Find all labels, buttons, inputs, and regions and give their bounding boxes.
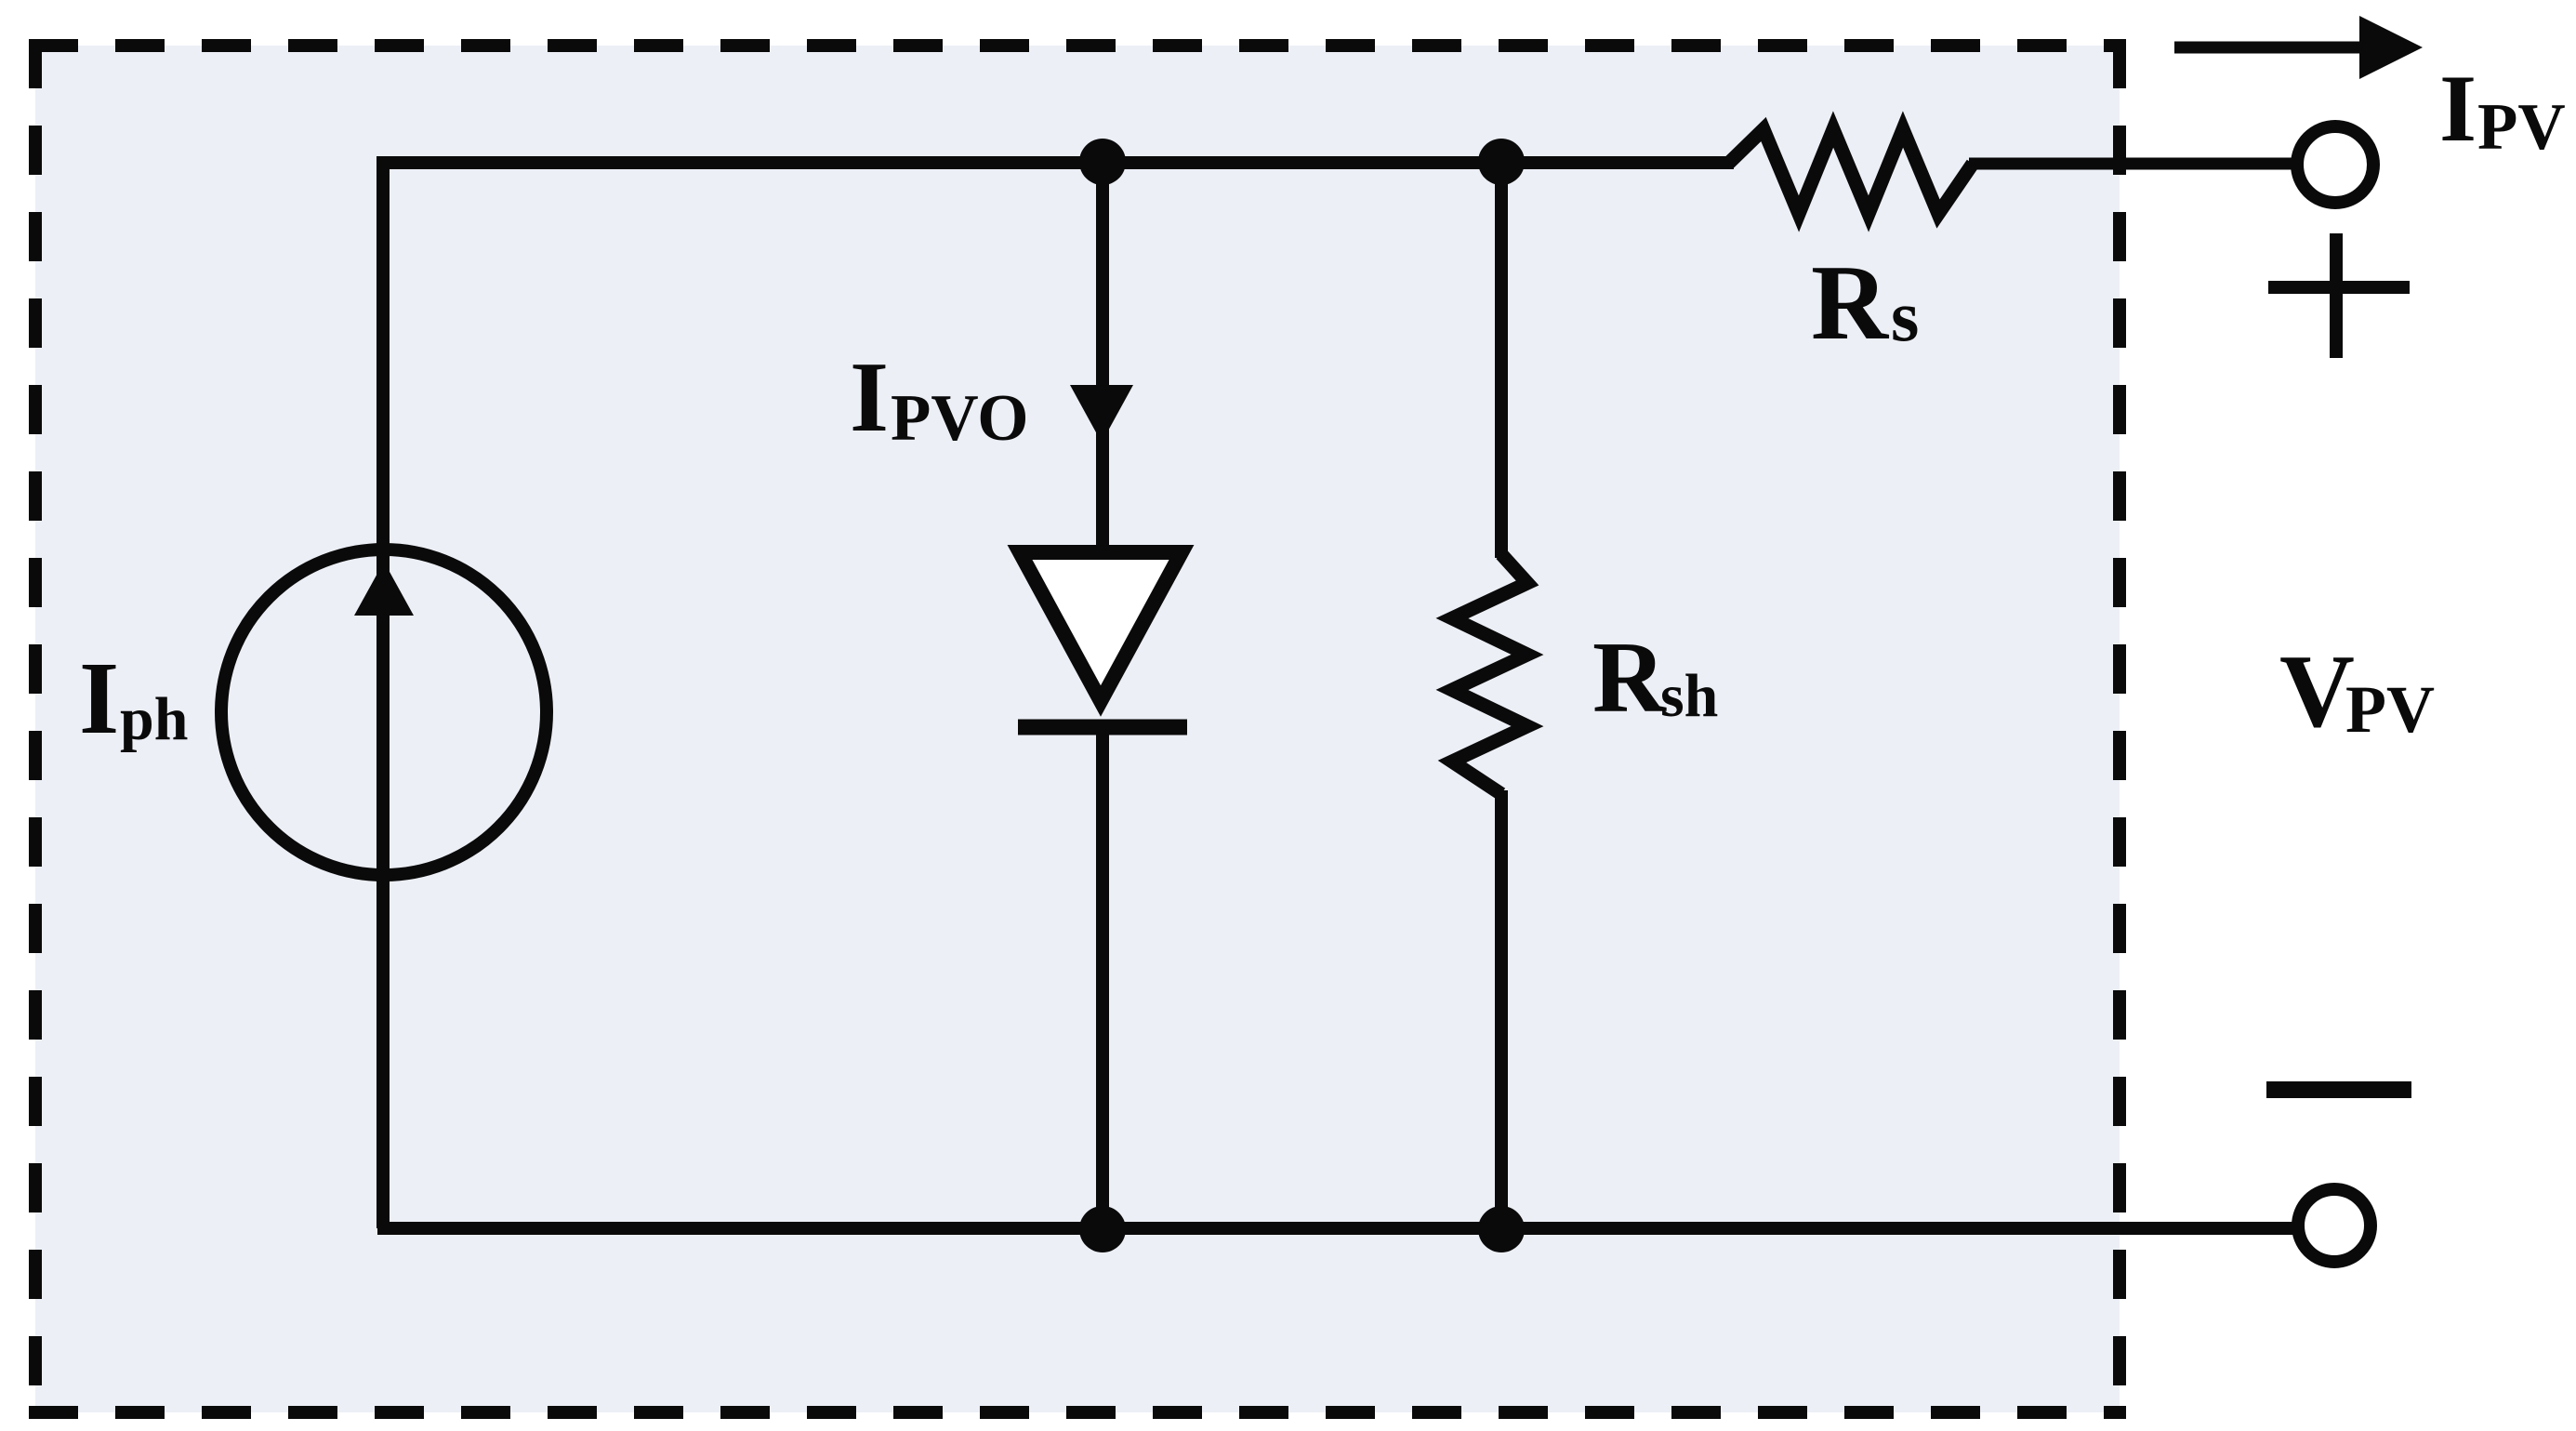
svg-text:R: R (1811, 244, 1890, 362)
node junction dot top diode (1079, 139, 1126, 185)
svg-text:V: V (2279, 634, 2355, 749)
svg-text:s: s (1891, 275, 1919, 356)
wire shunt branch upper (1495, 156, 1508, 558)
wire top rail right (1969, 158, 2294, 170)
svg-text:PV: PV (2477, 91, 2566, 164)
wire bottom rail (377, 1222, 2294, 1235)
dashed border right edge (2113, 39, 2126, 1419)
current source Iph circle (221, 550, 547, 875)
wire shunt branch lower (1495, 790, 1508, 1228)
wire top rail left (384, 156, 1734, 169)
plus sign (2268, 281, 2410, 294)
node junction dot bottom diode (1079, 1206, 1126, 1252)
dashed border top edge (29, 39, 2126, 52)
current source arrow head (354, 562, 414, 616)
diode current arrow IPVO (1070, 385, 1133, 443)
svg-text:R: R (1592, 621, 1667, 734)
resistor Rsh zigzag (1452, 554, 1527, 794)
dashed border bottom edge (29, 1406, 2126, 1419)
output terminal positive (2297, 126, 2373, 203)
PV cell shaded region (35, 46, 2120, 1412)
dashed border left edge (29, 39, 42, 1419)
svg-text:ph: ph (120, 685, 188, 753)
diode D1 triangle (1020, 552, 1182, 701)
wire left branch vertical (376, 156, 390, 1228)
node junction dot top shunt (1478, 139, 1525, 185)
resistor Rs zigzag (1729, 129, 1973, 214)
svg-text:PV: PV (2345, 672, 2435, 747)
svg-text:I: I (2439, 56, 2477, 162)
wire diode branch upper (1096, 156, 1109, 558)
output terminal negative (2298, 1189, 2371, 1262)
current IPV arrow (2174, 42, 2363, 54)
diode D1 cathode bar (1018, 720, 1187, 735)
wire diode branch lower (1096, 721, 1109, 1228)
svg-text:I: I (850, 342, 889, 453)
minus sign (2266, 1081, 2411, 1098)
svg-text:I: I (79, 642, 119, 756)
svg-text:sh: sh (1660, 662, 1718, 730)
node junction dot bottom shunt (1478, 1206, 1525, 1252)
svg-text:PVO: PVO (891, 382, 1028, 455)
